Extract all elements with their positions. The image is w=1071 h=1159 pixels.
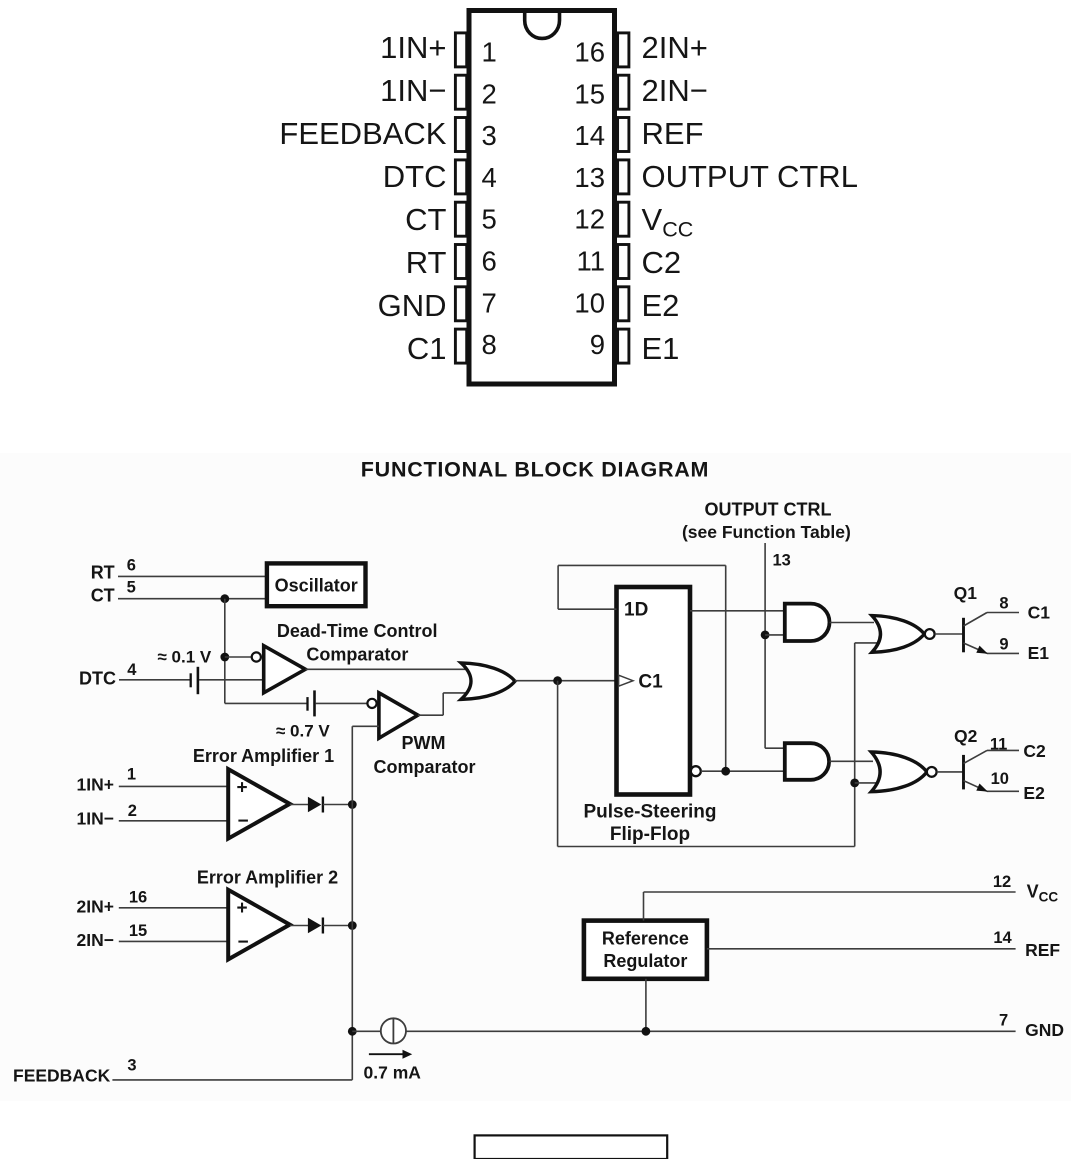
offset source 0.7V battery symbol xyxy=(306,697,308,711)
wire EA1 output to diode xyxy=(290,804,308,806)
svg-text:≈ 0.1 V: ≈ 0.1 V xyxy=(158,648,212,667)
wire FEEDBACK to rail xyxy=(112,1079,352,1081)
pin 15 lead xyxy=(618,75,629,109)
svg-text:Comparator: Comparator xyxy=(373,757,475,777)
input bubble PWM comparator xyxy=(367,699,376,708)
svg-text:REF: REF xyxy=(642,116,704,151)
wire Qbar to AND2 xyxy=(701,770,785,772)
svg-text:1IN−: 1IN− xyxy=(380,73,446,108)
wire PWM output to OR gate xyxy=(418,714,443,716)
oscillator U1 box xyxy=(267,563,366,606)
svg-text:7: 7 xyxy=(999,1012,1008,1030)
svg-text:Regulator: Regulator xyxy=(603,951,687,971)
IC package body (DIP-16) xyxy=(469,11,615,385)
svg-text:RT: RT xyxy=(406,245,447,280)
svg-text:10: 10 xyxy=(574,287,605,318)
svg-text:1IN+: 1IN+ xyxy=(77,775,114,795)
svg-text:12: 12 xyxy=(993,873,1011,891)
junction Qbar loop xyxy=(721,767,730,776)
svg-text:1: 1 xyxy=(127,765,136,783)
svg-text:REF: REF xyxy=(1025,940,1060,960)
svg-text:Comparator: Comparator xyxy=(306,644,408,664)
svg-text:Reference: Reference xyxy=(602,928,689,948)
junction pin13 to AND1 xyxy=(761,631,770,640)
svg-text:2IN−: 2IN− xyxy=(642,73,708,108)
svg-text:Q2: Q2 xyxy=(954,726,978,746)
svg-text:11: 11 xyxy=(990,735,1007,753)
svg-text:1: 1 xyxy=(482,37,497,68)
reference regulator U8 box xyxy=(584,921,707,979)
footer logo box xyxy=(475,1135,668,1159)
svg-text:+: + xyxy=(237,777,248,798)
svg-text:E1: E1 xyxy=(642,331,680,366)
wire NOR1 to Q1 base xyxy=(935,633,963,635)
svg-text:4: 4 xyxy=(482,162,497,193)
NOR gate U6 upper xyxy=(872,616,924,653)
diode D2 xyxy=(308,918,321,933)
wire 1IN- to EA1 xyxy=(119,820,228,822)
svg-text:4: 4 xyxy=(127,661,137,679)
svg-text:DTC: DTC xyxy=(79,668,116,688)
pin 6 lead xyxy=(455,245,466,279)
svg-text:16: 16 xyxy=(574,37,605,68)
svg-text:0.7 mA: 0.7 mA xyxy=(364,1062,422,1082)
svg-text:RT: RT xyxy=(91,563,115,583)
junction EA2 on rail xyxy=(348,921,357,930)
pin 10 lead xyxy=(618,287,629,321)
op-amp error amplifier 1 xyxy=(228,769,290,839)
input bubble dead-time comparator xyxy=(252,652,261,661)
wire feedback rail vertical xyxy=(351,726,353,1080)
svg-text:Q1: Q1 xyxy=(954,583,978,603)
svg-text:Error Amplifier 2: Error Amplifier 2 xyxy=(197,867,338,887)
svg-text:1IN+: 1IN+ xyxy=(380,30,446,65)
svg-text:DTC: DTC xyxy=(383,159,447,194)
OR gate U2 xyxy=(461,663,515,700)
pin 2 lead xyxy=(455,75,466,109)
svg-text:PWM: PWM xyxy=(402,733,446,753)
pin 12 lead xyxy=(618,202,629,236)
offset source 0.1V battery symbol xyxy=(190,673,192,687)
bubble NOR1 output xyxy=(925,629,935,639)
node VCC pin 12 xyxy=(644,891,1016,893)
wire 2IN+ to EA2 xyxy=(119,907,228,909)
junction loop to NOR2 xyxy=(850,779,859,788)
svg-text:C2: C2 xyxy=(642,245,682,280)
pin 7 lead xyxy=(455,287,466,321)
arrow current direction xyxy=(369,1053,403,1055)
wire junction to input bubble xyxy=(225,656,252,658)
wire 2IN- to EA2 xyxy=(119,940,228,942)
pin 4 lead xyxy=(455,160,466,194)
svg-text:≈ 0.7 V: ≈ 0.7 V xyxy=(276,722,330,741)
bubble Qbar output xyxy=(691,766,701,776)
wire DTC to offset source xyxy=(119,679,190,681)
junction rail to current source xyxy=(348,1027,357,1036)
wire diode to rail xyxy=(323,925,352,927)
clock arrow into flip-flop xyxy=(619,675,633,686)
svg-text:7: 7 xyxy=(482,287,497,318)
wire OR output to flip-flop C1 xyxy=(515,680,617,682)
op-amp PWM comparator xyxy=(379,693,418,738)
svg-text:8: 8 xyxy=(999,594,1008,612)
AND gate U4 upper xyxy=(785,604,830,641)
svg-text:8: 8 xyxy=(482,329,497,360)
svg-text:C2: C2 xyxy=(1023,741,1046,761)
AND gate U5 lower xyxy=(785,743,829,780)
wire regulator to GND xyxy=(645,979,647,1032)
wire RT to oscillator xyxy=(118,575,267,577)
svg-text:C1: C1 xyxy=(407,331,447,366)
wire battery to comparator minus input xyxy=(199,679,264,681)
svg-text:CT: CT xyxy=(405,202,446,237)
svg-text:11: 11 xyxy=(576,246,605,277)
wire dead-time comparator output to OR gate xyxy=(305,668,466,670)
svg-text:−: − xyxy=(238,811,249,832)
svg-text:2IN+: 2IN+ xyxy=(77,897,114,917)
svg-text:E1: E1 xyxy=(1028,643,1050,663)
svg-text:3: 3 xyxy=(482,120,497,151)
op-amp dead-time control comparator xyxy=(264,646,306,693)
wire regulator to VCC line xyxy=(643,892,645,921)
svg-text:9: 9 xyxy=(999,635,1008,653)
node REF pin 14 xyxy=(707,948,1016,950)
svg-text:CT: CT xyxy=(91,586,115,606)
pin 5 lead xyxy=(455,202,466,236)
wire PWM lower input from feedback rail xyxy=(352,725,379,727)
wire AND1 output to NOR1 xyxy=(830,622,875,624)
junction regulator GND xyxy=(642,1027,651,1036)
svg-text:OUTPUT CTRL: OUTPUT CTRL xyxy=(642,159,858,194)
svg-text:13: 13 xyxy=(574,162,605,193)
svg-text:Error Amplifier 1: Error Amplifier 1 xyxy=(193,746,334,766)
svg-text:+: + xyxy=(237,898,248,919)
svg-text:3: 3 xyxy=(127,1056,136,1074)
pin 14 lead xyxy=(618,118,629,152)
svg-text:14: 14 xyxy=(574,120,605,151)
junction on CT line xyxy=(220,594,229,603)
svg-text:FEEDBACK: FEEDBACK xyxy=(279,116,446,151)
wire CT to oscillator xyxy=(118,598,267,600)
svg-text:5: 5 xyxy=(482,204,497,235)
svg-text:10: 10 xyxy=(991,770,1009,788)
svg-text:−: − xyxy=(238,932,249,953)
wire CT branch vertical xyxy=(224,599,226,704)
wire Q output to AND1 xyxy=(690,610,785,612)
junction CT branch to DTC comparator xyxy=(220,653,229,662)
wire 1D input loop xyxy=(558,608,616,610)
svg-text:2: 2 xyxy=(128,802,137,820)
svg-text:OUTPUT CTRL: OUTPUT CTRL xyxy=(705,499,832,519)
pin 13 lead xyxy=(618,160,629,194)
NOR gate U7 lower xyxy=(871,752,927,792)
svg-text:FUNCTIONAL BLOCK DIAGRAM: FUNCTIONAL BLOCK DIAGRAM xyxy=(361,458,709,482)
transistor Q2 xyxy=(962,755,965,790)
svg-text:9: 9 xyxy=(590,329,605,360)
pin 3 lead xyxy=(455,118,466,152)
junction OR output xyxy=(553,676,562,685)
svg-text:Flip-Flop: Flip-Flop xyxy=(610,824,690,845)
svg-text:FEEDBACK: FEEDBACK xyxy=(13,1066,111,1086)
svg-text:13: 13 xyxy=(773,551,791,569)
svg-text:Pulse-Steering: Pulse-Steering xyxy=(583,801,716,822)
wire 1IN+ to EA1 xyxy=(119,785,228,787)
wire diode to rail xyxy=(323,804,352,806)
svg-text:Dead-Time Control: Dead-Time Control xyxy=(277,621,438,641)
svg-text:GND: GND xyxy=(1025,1020,1064,1040)
svg-text:14: 14 xyxy=(993,929,1012,947)
svg-text:2IN+: 2IN+ xyxy=(642,30,708,65)
svg-text:E2: E2 xyxy=(1023,783,1045,803)
wire current source to GND line xyxy=(406,1030,1016,1032)
pin-1 index notch xyxy=(525,11,560,38)
pin 11 lead xyxy=(618,245,629,279)
svg-text:Oscillator: Oscillator xyxy=(275,575,358,595)
svg-text:16: 16 xyxy=(129,889,147,907)
svg-text:C1: C1 xyxy=(1028,602,1051,622)
svg-text:12: 12 xyxy=(574,204,605,235)
svg-text:5: 5 xyxy=(127,579,136,597)
pin 8 lead xyxy=(455,329,466,363)
diode D1 xyxy=(308,797,321,812)
pin 16 lead xyxy=(618,33,629,67)
wire AND2 output to NOR2 xyxy=(830,760,874,762)
junction EA1 on rail xyxy=(348,800,357,809)
wire pin13 vertical xyxy=(764,543,766,748)
svg-text:2: 2 xyxy=(482,78,497,109)
svg-text:6: 6 xyxy=(482,246,497,277)
svg-text:6: 6 xyxy=(127,557,136,575)
wire OR output down-loop xyxy=(557,681,559,847)
scanned page tint xyxy=(0,453,1071,1101)
svg-text:E2: E2 xyxy=(642,288,680,323)
transistor Q1 xyxy=(962,618,965,653)
pin 9 lead xyxy=(618,329,629,363)
svg-text:GND: GND xyxy=(378,288,447,323)
svg-text:1D: 1D xyxy=(624,599,648,620)
svg-text:(see Function Table): (see Function Table) xyxy=(682,522,851,542)
wire 0.7V branch horizontal xyxy=(225,702,307,704)
svg-text:2IN−: 2IN− xyxy=(77,930,114,950)
current source I1 0.7mA xyxy=(381,1018,406,1043)
pin 1 lead xyxy=(455,33,466,67)
svg-text:15: 15 xyxy=(574,78,605,109)
wire rail to current source xyxy=(352,1030,381,1032)
wire battery to PWM bubble xyxy=(316,702,368,704)
op-amp error amplifier 2 xyxy=(228,890,290,960)
bubble NOR2 output xyxy=(927,767,937,777)
svg-text:1IN−: 1IN− xyxy=(77,809,114,829)
svg-text:C1: C1 xyxy=(638,672,663,693)
wire NOR2 to Q2 base xyxy=(937,771,963,773)
svg-text:15: 15 xyxy=(129,922,147,940)
wire EA2 output to diode xyxy=(290,925,308,927)
flip-flop U3 pulse-steering box xyxy=(617,587,691,795)
